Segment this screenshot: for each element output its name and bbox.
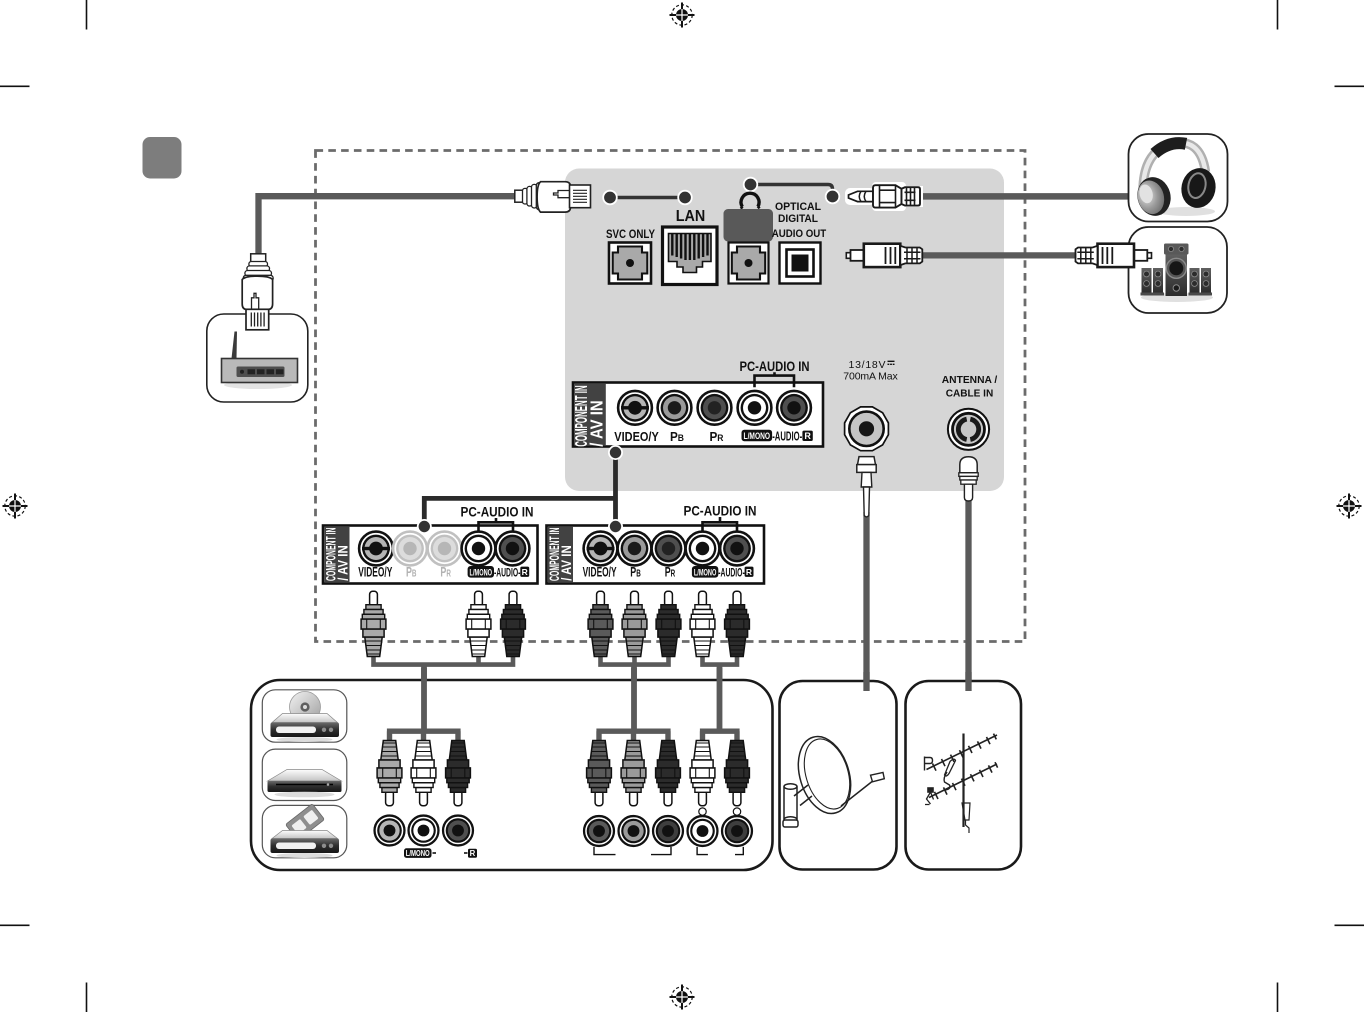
label 13/18V 700mA Max xyxy=(843,359,898,383)
node dot right box xyxy=(609,520,622,533)
svg-text:DIGITAL: DIGITAL xyxy=(778,213,818,225)
jack L/MONO (left box) xyxy=(462,532,496,566)
component/AV in box (panel) xyxy=(571,383,823,447)
svg-text:-AUDIO-: -AUDIO- xyxy=(718,565,745,579)
svg-text:SVC ONLY: SVC ONLY xyxy=(606,227,655,241)
svg-text:VIDEO/Y: VIDEO/Y xyxy=(583,564,617,580)
jack PR faded (left box) xyxy=(428,532,462,566)
label ANTENNA / CABLE IN xyxy=(942,375,998,400)
optical plug at speaker xyxy=(1076,244,1152,267)
RCA plug gray (left group) xyxy=(361,591,386,656)
left component/AV in box xyxy=(323,526,538,584)
svg-text:CABLE IN: CABLE IN xyxy=(946,389,994,400)
jack labels (left box) xyxy=(358,564,529,580)
device jack Y (right group) xyxy=(584,816,614,846)
svg-text:L/MONO: L/MONO xyxy=(470,567,493,577)
RCA plug Pr (right group) xyxy=(656,591,681,656)
satellite cable overlay crossing box border xyxy=(863,672,869,691)
bracket marks under right jacks xyxy=(594,847,743,855)
RCA plug Y (right group) xyxy=(588,591,613,656)
speaker system device box xyxy=(1129,227,1228,313)
right component/AV in box xyxy=(546,526,764,584)
RCA plug black down (right group) xyxy=(725,741,750,806)
node dot under panel VIDEO/Y xyxy=(609,446,622,459)
label OPTICAL DIGITAL AUDIO OUT xyxy=(772,201,827,240)
wire branch to right device plugs YPbPr xyxy=(596,731,670,744)
slim DVD player icon xyxy=(262,749,347,800)
svg-text:R: R xyxy=(470,849,476,858)
jack PB (right box) xyxy=(618,532,652,566)
AV devices box xyxy=(251,680,773,870)
speaker system icon xyxy=(1141,244,1214,303)
antenna cable xyxy=(965,497,971,683)
TV back panel xyxy=(565,169,1004,492)
callout line headphone port to plug xyxy=(744,178,840,204)
svg-text:R: R xyxy=(746,567,752,577)
svg-text:PC-AUDIO IN: PC-AUDIO IN xyxy=(461,505,534,520)
jack AUDIO R (right box) xyxy=(720,532,754,566)
satellite F-type plug xyxy=(857,457,876,517)
satellite cable xyxy=(863,512,869,683)
jack PR (panel) xyxy=(698,391,732,425)
jack AUDIO R (left box) xyxy=(496,532,530,566)
registration mark top-center xyxy=(670,3,695,28)
DVD player with disc icon xyxy=(262,690,347,742)
13/18V satellite power jack xyxy=(845,407,889,451)
antenna icon xyxy=(925,734,998,834)
jack PB (panel) xyxy=(658,391,692,425)
device jack L (right group) xyxy=(688,816,718,846)
jack labels (right box) xyxy=(583,564,754,580)
svg-text:-AUDIO-: -AUDIO- xyxy=(494,565,521,579)
bracket PC-AUDIO IN (panel) xyxy=(755,372,795,387)
AV cable tree right group YPbPr xyxy=(598,652,671,731)
svg-text:VIDEO/Y: VIDEO/Y xyxy=(614,429,659,444)
registration mark bottom-center xyxy=(670,985,695,1010)
svg-text:-AUDIO-: -AUDIO- xyxy=(772,430,802,444)
device jack L/MONO (left group) xyxy=(409,816,439,846)
RCA plug Pb (right group) xyxy=(622,591,647,656)
callout line LAN plug to LAN port xyxy=(603,191,692,205)
satellite dish icon xyxy=(783,730,884,827)
RCA plug black down (left group) xyxy=(446,741,471,806)
headphone port xyxy=(729,243,769,284)
jack L/MONO (panel) xyxy=(738,391,772,425)
jack VIDEO/Y (panel) xyxy=(618,391,652,425)
LAN port xyxy=(663,227,718,285)
svg-text:OPTICAL: OPTICAL xyxy=(775,201,821,213)
svg-text:13/18V: 13/18V xyxy=(849,359,886,371)
wire branch to left device plugs xyxy=(387,731,461,744)
headphone 3.5mm plug xyxy=(845,182,923,211)
pin hole L (right group) xyxy=(699,808,706,815)
optical cable xyxy=(918,252,1076,258)
bracket PC-AUDIO IN (left box) xyxy=(479,518,514,532)
ethernet plug to router (RJ45, vertical) xyxy=(242,254,273,330)
label L/MONO (device) xyxy=(404,848,436,858)
RCA plug Y down (right group) xyxy=(587,741,612,806)
ethernet plug to TV (RJ45, horizontal) xyxy=(515,182,591,212)
jack VIDEO/Y (left box) xyxy=(359,532,393,566)
jack PR (right box) xyxy=(652,532,686,566)
svg-text:700mA Max: 700mA Max xyxy=(843,371,898,383)
svg-text:/ AV IN: / AV IN xyxy=(587,400,607,447)
headphones icon xyxy=(1133,142,1219,219)
bracket PC-AUDIO IN (right box) xyxy=(703,517,738,532)
registration mark left-center xyxy=(3,494,28,519)
pin hole R (right group) xyxy=(733,808,740,815)
VCR with cassette icon xyxy=(262,804,347,858)
headphone dark plate xyxy=(724,209,774,242)
jack labels (panel) xyxy=(614,429,813,444)
headphones device box xyxy=(1129,134,1228,222)
OPTICAL DIGITAL AUDIO OUT port xyxy=(780,243,821,284)
registration mark right-center xyxy=(1337,494,1362,519)
wire branch to right device plugs L/R xyxy=(700,731,740,744)
svg-text:PC-AUDIO IN: PC-AUDIO IN xyxy=(684,504,757,519)
ethernet cable xyxy=(259,196,517,254)
headphone symbol xyxy=(741,193,759,207)
RCA plug black (right group) xyxy=(725,591,750,656)
device jack R (left group) xyxy=(443,816,473,846)
RCA plug Pb down (right group) xyxy=(621,741,646,806)
jack L/MONO (right box) xyxy=(686,532,720,566)
SVC ONLY port xyxy=(609,243,651,284)
svg-text:AUDIO OUT: AUDIO OUT xyxy=(772,228,827,240)
device jack video (left group) xyxy=(375,816,405,846)
RCA plug Pr down (right group) xyxy=(656,741,681,806)
device jack R2 (right group) xyxy=(722,816,752,846)
svg-text:L/MONO: L/MONO xyxy=(744,431,771,442)
svg-text:/ AV IN: / AV IN xyxy=(558,545,574,581)
antenna device box xyxy=(906,681,1022,870)
device jack Pr (right group) xyxy=(653,816,683,846)
jack AUDIO R (panel) xyxy=(777,391,811,425)
headphone cable xyxy=(916,193,1130,200)
AV cable tree left group xyxy=(371,652,515,731)
svg-text:R: R xyxy=(522,567,528,577)
section number box xyxy=(143,137,182,179)
jack VIDEO/Y (right box) xyxy=(584,532,618,566)
ANTENNA / CABLE IN jack xyxy=(948,409,989,450)
RCA plug white (left group) xyxy=(466,591,491,656)
label R (device) xyxy=(464,849,477,858)
svg-text:/ AV IN: / AV IN xyxy=(335,545,351,581)
wire overlays crossing AV devices box border xyxy=(424,668,720,731)
antenna cable overlay crossing box border xyxy=(965,672,971,691)
device jack Pb (right group) xyxy=(619,816,649,846)
svg-text:R: R xyxy=(804,431,811,441)
router box xyxy=(207,314,308,402)
svg-text:LAN: LAN xyxy=(676,208,706,225)
node dot left box xyxy=(418,520,431,533)
RCA plug gray down (left group) xyxy=(377,741,402,806)
antenna IEC plug xyxy=(959,457,978,501)
svg-text:PC-AUDIO IN: PC-AUDIO IN xyxy=(740,359,810,374)
RCA plug white (right group) xyxy=(690,591,715,656)
svg-text:L/MONO: L/MONO xyxy=(694,567,717,577)
AV cable tree right group L/R audio xyxy=(700,652,739,731)
svg-text:ANTENNA /: ANTENNA / xyxy=(942,375,998,386)
RCA plug white down (right group) xyxy=(690,741,715,806)
AV link wire from panel VIDEO/Y to component boxes xyxy=(424,453,615,527)
RCA plug white down (left group) xyxy=(411,741,436,806)
jack PB faded (left box) xyxy=(393,532,427,566)
TV outline dashed box xyxy=(316,151,1026,642)
optical plug at TV xyxy=(846,244,922,267)
svg-text:L/MONO: L/MONO xyxy=(406,849,430,858)
svg-text:VIDEO/Y: VIDEO/Y xyxy=(358,564,392,580)
satellite dish device box xyxy=(780,681,897,870)
router icon xyxy=(222,332,298,390)
RCA plug black (left group) xyxy=(501,591,526,656)
